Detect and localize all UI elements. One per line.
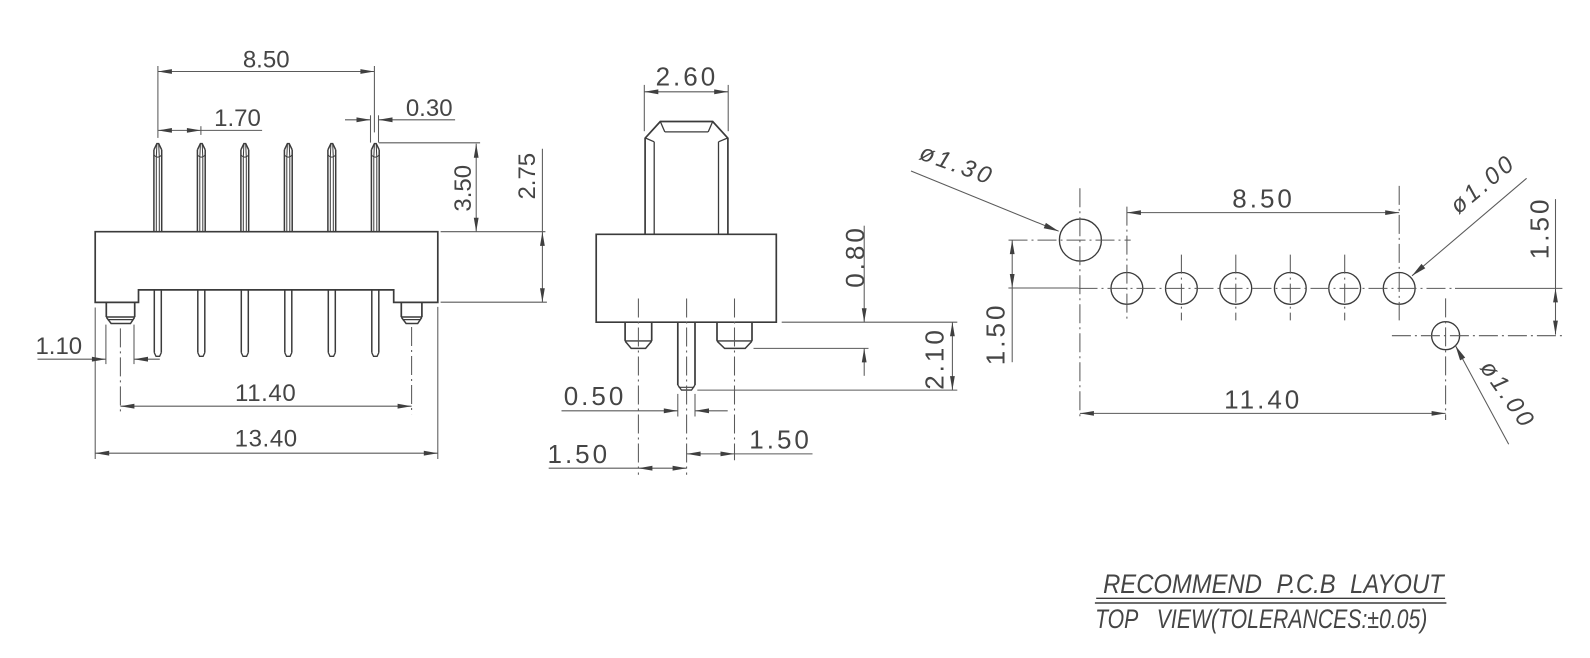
svg-text:13.40: 13.40 — [235, 425, 298, 452]
svg-text:0.50: 0.50 — [564, 381, 627, 411]
svg-text:11.40: 11.40 — [235, 380, 296, 407]
svg-text:RECOMMEND P.C.B LAYOUT: RECOMMEND P.C.B LAYOUT — [1103, 569, 1446, 599]
svg-text:2.60: 2.60 — [656, 61, 719, 91]
svg-text:2.10: 2.10 — [920, 327, 950, 390]
svg-text:8.50: 8.50 — [243, 46, 290, 73]
svg-text:1.10: 1.10 — [35, 333, 82, 360]
svg-text:0.80: 0.80 — [840, 225, 870, 288]
svg-text:0.30: 0.30 — [406, 95, 453, 122]
svg-text:1.50: 1.50 — [749, 425, 812, 455]
svg-text:3.50: 3.50 — [450, 165, 477, 212]
svg-text:11.40: 11.40 — [1224, 384, 1302, 414]
svg-text:1.50: 1.50 — [547, 439, 610, 469]
svg-text:1.70: 1.70 — [214, 105, 261, 132]
svg-text:TOP VIEW(TOLERANCES:±0.05): TOP VIEW(TOLERANCES:±0.05) — [1095, 605, 1427, 635]
svg-text:1.50: 1.50 — [981, 303, 1011, 366]
svg-text:2.75: 2.75 — [514, 153, 541, 200]
svg-text:1.50: 1.50 — [1524, 197, 1554, 260]
svg-text:8.50: 8.50 — [1232, 183, 1295, 213]
